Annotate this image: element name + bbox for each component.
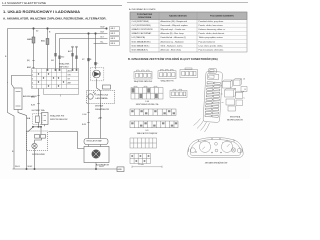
svg-text:GŁÓWNY 30A: GŁÓWNY 30A — [32, 109, 46, 112]
svg-text:Przedz. silnika, obok alternat: Przedz. silnika, obok alternat. — [199, 32, 226, 35]
svg-text:(B): (B) — [27, 60, 30, 62]
svg-text:GND: GND — [118, 169, 123, 171]
svg-text:OZNACZENIA: OZNACZENIA — [138, 16, 152, 19]
svg-text:WSKAŹNIKÓW: WSKAŹNIKÓW — [95, 108, 109, 111]
svg-text:ACC: ACC — [68, 50, 73, 53]
svg-text:W-02 (MASA SILN.): W-02 (MASA SILN.) — [132, 44, 150, 47]
svg-text:Kolumna kierownicy, dolna cz.: Kolumna kierownicy, dolna cz. — [199, 29, 226, 31]
svg-text:Rozrusznik - Włącznik zapłonu: Rozrusznik - Włącznik zapłonu — [161, 25, 188, 27]
svg-text:ACC: ACC — [68, 69, 73, 72]
svg-text:B-W: B-W — [31, 105, 35, 107]
svg-text:Lewa strona przedz. silnika: Lewa strona przedz. silnika — [199, 44, 224, 47]
svg-text:TABLICA PRZYRZĄDÓW: TABLICA PRZYRZĄDÓW — [137, 132, 158, 135]
svg-text:I-01 (TABLICA): I-01 (TABLICA) — [132, 36, 146, 39]
svg-text:C-07 (ROZRUSZNIK): C-07 (ROZRUSZNIK) — [132, 25, 152, 27]
svg-text:ŁADOWANIA: ŁADOWANIA — [96, 97, 109, 100]
svg-text:I-01: I-01 — [145, 130, 148, 132]
svg-text:NAZWA OBWODU: NAZWA OBWODU — [169, 15, 187, 18]
svg-text:B-R: B-R — [101, 32, 105, 34]
svg-text:15 mm: 15 mm — [138, 164, 144, 166]
svg-text:Kontrolka ład. - Alternator (L: Kontrolka ład. - Alternator (L) — [161, 36, 187, 39]
svg-text:GNIAZDO ALTERNAT.: GNIAZDO ALTERNAT. — [132, 32, 152, 35]
svg-text:KONTROLKA: KONTROLKA — [96, 94, 109, 97]
svg-text:SKRZYNI BIEGÓW: SKRZYNI BIEGÓW — [50, 118, 68, 121]
svg-text:MAIN: MAIN — [27, 38, 33, 41]
svg-text:Alternator (B) - Skrz. bezp.: Alternator (B) - Skrz. bezp. — [161, 32, 185, 35]
svg-text:AM: AM — [68, 81, 71, 84]
svg-text:Akumulator (-) - Nadwozie: Akumulator (-) - Nadwozie — [161, 40, 185, 43]
svg-text:SKRZYNKA: SKRZYNKA — [230, 116, 241, 119]
svg-text:W-05 (MASA ALT.): W-05 (MASA ALT.) — [132, 49, 149, 52]
svg-text:ALTERNATOR: ALTERNATOR — [96, 164, 110, 167]
svg-text:SKRZYNKA ROZDZIELCZA: SKRZYNKA ROZDZIELCZA — [136, 103, 159, 106]
svg-text:Przedz. silnika, lewa strona: Przedz. silnika, lewa strona — [199, 24, 224, 27]
svg-text:1. UKŁAD ROZRUCHOWY I ŁADOWANI: 1. UKŁAD ROZRUCHOWY I ŁADOWANIA — [3, 9, 80, 14]
svg-text:ZESTAW WSKAŹNIKÓW: ZESTAW WSKAŹNIKÓW — [205, 162, 228, 165]
svg-text:C-04 (SKRZYNKA): C-04 (SKRZYNKA) — [132, 20, 149, 23]
svg-text:BEZPIECZNIKÓW: BEZPIECZNIKÓW — [227, 119, 243, 122]
svg-text:Alternator - Blok silnika: Alternator - Blok silnika — [161, 49, 182, 52]
svg-text:Przedział silnika, przy akum.: Przedział silnika, przy akum. — [199, 21, 225, 23]
svg-text:B-W: B-W — [101, 27, 105, 29]
svg-text:POŁOŻENIE ELEMENTU: POŁOŻENIE ELEMENTU — [210, 15, 235, 18]
svg-text:Tablica przyrządów, zestaw: Tablica przyrządów, zestaw — [199, 36, 224, 39]
svg-text:1.4 SCHEMATY ELEKTRYCZNE: 1.4 SCHEMATY ELEKTRYCZNE — [2, 1, 46, 5]
svg-text:A. AKUMULATOR, WŁĄCZNIK ZAPŁON: A. AKUMULATOR, WŁĄCZNIK ZAPŁONU, ROZRUSZ… — [3, 17, 107, 21]
svg-text:ZESTAW: ZESTAW — [95, 105, 103, 108]
svg-text:A. INFORMACJE DODATK.: A. INFORMACJE DODATK. — [129, 8, 156, 11]
svg-text:WŁĄCZNIK P/N: WŁĄCZNIK P/N — [161, 80, 174, 83]
svg-text:W-01 (MASA AKUM.): W-01 (MASA AKUM.) — [132, 40, 151, 43]
svg-text:ROZRUSZNIK: ROZRUSZNIK — [32, 154, 46, 156]
svg-text:REGULATOR NAP.: REGULATOR NAP. — [87, 140, 103, 143]
svg-text:C-04: C-04 — [145, 101, 149, 103]
svg-text:WŁĄCZNIK ZAPŁONU: WŁĄCZNIK ZAPŁONU — [134, 80, 153, 83]
svg-text:Przy akumulatorze: Przy akumulatorze — [199, 40, 216, 43]
svg-text:B-W: B-W — [82, 124, 86, 126]
svg-text:Włącznik zapł. - Cewka rozr.: Włącznik zapł. - Cewka rozr. — [161, 29, 187, 31]
svg-text:GNIAZDO ROZRUSZN.: GNIAZDO ROZRUSZN. — [132, 28, 154, 31]
svg-text:Silnik - Nadwozie, taśma: Silnik - Nadwozie, taśma — [161, 44, 184, 47]
svg-text:Przy mocowaniu alternatora: Przy mocowaniu alternatora — [199, 49, 225, 52]
svg-text:PODSTAWOWE: PODSTAWOWE — [137, 13, 153, 16]
svg-text:WŁĄCZNIK: WŁĄCZNIK — [59, 63, 70, 66]
svg-text:WŁĄCZNIK P/N: WŁĄCZNIK P/N — [50, 115, 65, 118]
svg-text:Akumulator (30) - Bezpiecznik: Akumulator (30) - Bezpiecznik — [161, 20, 188, 23]
svg-text:ZAPŁONU: ZAPŁONU — [59, 66, 69, 69]
